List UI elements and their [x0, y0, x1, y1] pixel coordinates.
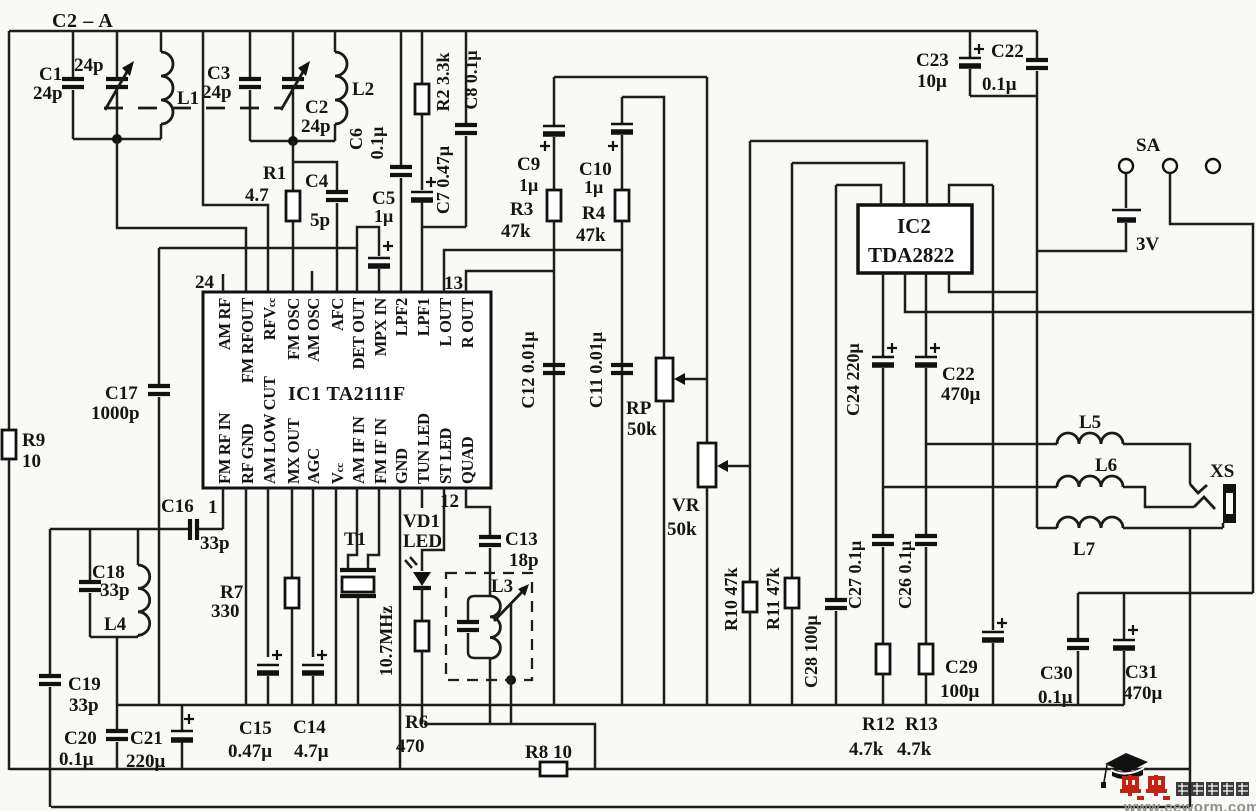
- svg-text:AM LOW CUT: AM LOW CUT: [260, 376, 279, 484]
- wire GND pin 9 to bottom bus: [399, 488, 402, 769]
- capacitor C13: [466, 488, 539, 595]
- svg-text:R7: R7: [220, 582, 244, 603]
- svg-text:R1: R1: [263, 163, 286, 184]
- wire volume net vertical: [749, 141, 752, 582]
- capacitor C12: [518, 331, 565, 408]
- wire C10 top hook: [622, 97, 664, 358]
- svg-text:C14: C14: [293, 717, 326, 738]
- capacitor C16: [50, 496, 230, 554]
- capacitor C4: [293, 162, 348, 292]
- svg-text:L4: L4: [104, 614, 127, 635]
- svg-text:33p: 33p: [200, 533, 230, 554]
- capacitor C29: [940, 185, 1007, 705]
- svg-text:0.1μ: 0.1μ: [1038, 687, 1073, 708]
- node tank1 junction: [112, 134, 122, 144]
- svg-text:0.1μ: 0.1μ: [367, 127, 387, 160]
- svg-text:10μ: 10μ: [917, 71, 947, 92]
- wire jack contact 1: [1190, 484, 1207, 493]
- wire decoupling box bottom: [970, 95, 1037, 98]
- svg-text:R2 3.3k: R2 3.3k: [433, 52, 453, 111]
- wire IC2 input bracket 2: [792, 163, 904, 205]
- svg-text:R9: R9: [22, 430, 45, 451]
- svg-text:4.7k: 4.7k: [849, 739, 884, 760]
- svg-text:TUN LED: TUN LED: [414, 413, 433, 484]
- svg-text:33p: 33p: [69, 695, 99, 716]
- svg-text:www.eeworm.com: www.eeworm.com: [1123, 799, 1256, 811]
- svg-text:C8 0.1μ: C8 0.1μ: [461, 50, 481, 109]
- capacitor C15: [228, 488, 282, 762]
- svg-text:4.7: 4.7: [245, 185, 269, 206]
- wire switch pole 2 feed: [1170, 173, 1253, 593]
- svg-text:C11 0.01μ: C11 0.01μ: [586, 332, 606, 408]
- inductor L3 tuned tank: [457, 576, 529, 658]
- wire bottom ground bus: [9, 768, 1190, 771]
- svg-text:24p: 24p: [301, 116, 331, 137]
- potentiometer RP: [626, 358, 707, 705]
- svg-text:LED: LED: [403, 531, 442, 552]
- wire detector out run: [159, 248, 357, 292]
- svg-text:R4: R4: [582, 203, 606, 224]
- wire IC2 top pin 4 bracket: [949, 185, 993, 205]
- svg-text:4.7k: 4.7k: [897, 739, 932, 760]
- watermark site name glyph blocks: [1176, 782, 1249, 796]
- resistor R11: [763, 567, 799, 705]
- svg-text:1μ: 1μ: [374, 206, 393, 226]
- resistor R8: [525, 742, 572, 776]
- wire LPF1 box bottom: [422, 227, 466, 292]
- svg-text:C19: C19: [68, 674, 101, 695]
- wire top supply rail: [9, 30, 1037, 33]
- pin 1 stub: [222, 488, 225, 529]
- capacitor C10: [579, 97, 633, 197]
- svg-text:1000p: 1000p: [91, 403, 140, 424]
- svg-text:0.1μ: 0.1μ: [982, 74, 1017, 95]
- svg-text:C3: C3: [207, 63, 230, 84]
- capacitor C26: [895, 444, 937, 644]
- resistor R9: [2, 430, 45, 472]
- svg-text:C2 – A: C2 – A: [52, 10, 113, 32]
- svg-text:R11 47k: R11 47k: [763, 567, 783, 630]
- svg-text:C16: C16: [161, 496, 194, 517]
- watermark graduation cap: [1101, 753, 1148, 788]
- svg-text:GND: GND: [392, 448, 411, 484]
- op-amp U2 IC2 TDA2822 body: [858, 205, 972, 273]
- capacitor C21: [126, 705, 194, 772]
- svg-text:4.7μ: 4.7μ: [294, 741, 329, 762]
- svg-text:C28 100μ: C28 100μ: [801, 615, 821, 688]
- svg-text:C7 0.47μ: C7 0.47μ: [433, 146, 453, 214]
- svg-text:R10 47k: R10 47k: [721, 567, 741, 631]
- wire jack contact 2: [1194, 497, 1215, 509]
- wire left border lower: [8, 459, 11, 770]
- wire L3 dashed box: [446, 573, 532, 680]
- svg-text:RF GND: RF GND: [238, 423, 257, 484]
- svg-text:MX OUT: MX OUT: [284, 418, 303, 484]
- svg-text:R8 10: R8 10: [525, 742, 572, 763]
- svg-text:L OUT: L OUT: [436, 298, 455, 347]
- svg-text:C26 0.1μ: C26 0.1μ: [895, 541, 915, 609]
- svg-text:0.47μ: 0.47μ: [228, 741, 272, 762]
- svg-text:FM OSC: FM OSC: [284, 298, 303, 360]
- svg-text:24p: 24p: [202, 82, 232, 103]
- svg-text:MPX IN: MPX IN: [371, 298, 390, 357]
- pin 20 stub: [311, 271, 314, 292]
- switch SA contact 3: [1206, 159, 1220, 173]
- capacitor C22a 0.1μ: [982, 31, 1048, 528]
- node junction L3 return: [506, 675, 516, 685]
- capacitor C8: [455, 31, 481, 227]
- svg-text:C9: C9: [517, 154, 540, 175]
- svg-text:C29: C29: [945, 657, 978, 678]
- svg-text:R6: R6: [405, 712, 428, 733]
- svg-text:T1: T1: [344, 529, 366, 550]
- capacitor C20: [59, 705, 128, 770]
- wire stereo feed vertical: [706, 77, 709, 443]
- wire tank1 to IC1 pin 23: [117, 139, 246, 292]
- op-amp U1 IC1 TA2111F body: [203, 292, 491, 488]
- svg-text:18p: 18p: [509, 550, 539, 571]
- wire pin 13 R OUT bracket: [466, 271, 554, 292]
- wire speaker top line: [1078, 592, 1253, 595]
- svg-text:VR: VR: [672, 495, 700, 516]
- svg-text:C27 0.1μ: C27 0.1μ: [845, 541, 865, 609]
- svg-text:FM RF IN: FM RF IN: [215, 412, 234, 484]
- svg-text:IC1 TA2111F: IC1 TA2111F: [288, 383, 406, 405]
- connector XS jack: [1210, 461, 1236, 528]
- svg-text:47k: 47k: [501, 221, 531, 242]
- svg-text:100μ: 100μ: [940, 681, 980, 702]
- wire tank1 bottom: [73, 138, 161, 141]
- inductor L7: [1037, 517, 1223, 560]
- inductor L6: [883, 455, 1194, 507]
- svg-text:C1: C1: [39, 64, 62, 85]
- wire L4 tank bottom tap: [90, 637, 138, 705]
- wire L3 slug return: [510, 604, 513, 724]
- svg-text:AM OSC: AM OSC: [304, 298, 323, 362]
- wire jack sleeve return: [1189, 528, 1192, 807]
- resistor R13: [897, 644, 938, 760]
- svg-text:R12: R12: [862, 714, 895, 735]
- node tank2 junction: [288, 136, 298, 146]
- svg-text:0.1μ: 0.1μ: [59, 749, 94, 770]
- svg-text:10: 10: [22, 451, 41, 472]
- capacitor C9: [517, 77, 565, 195]
- svg-text:L1: L1: [177, 88, 199, 109]
- svg-text:C20: C20: [64, 728, 97, 749]
- svg-text:10.7MHz: 10.7MHz: [376, 606, 396, 676]
- svg-text:C15: C15: [239, 718, 272, 739]
- svg-text:ST LED: ST LED: [436, 427, 455, 484]
- svg-text:C23: C23: [916, 50, 949, 71]
- capacitor C11: [586, 332, 633, 408]
- svg-text:C21: C21: [130, 728, 163, 749]
- resistor R10: [721, 567, 757, 705]
- capacitor C19: [39, 529, 101, 807]
- svg-text:24: 24: [195, 272, 215, 293]
- svg-text:IC2: IC2: [897, 214, 931, 238]
- svg-text:C4: C4: [305, 171, 329, 192]
- capacitor C27: [845, 487, 894, 644]
- capacitor C23: [916, 31, 984, 96]
- inductor L2: [335, 31, 374, 141]
- capacitor C17: [91, 248, 170, 705]
- svg-text:AGC: AGC: [304, 448, 323, 484]
- wire quad tank bottom: [489, 658, 492, 724]
- resistor R12: [849, 644, 895, 760]
- capacitor C14: [293, 488, 329, 762]
- battery 3V: [1037, 173, 1160, 255]
- svg-text:33p: 33p: [100, 580, 130, 601]
- svg-text:1: 1: [208, 497, 218, 518]
- svg-text:L2: L2: [352, 79, 374, 100]
- resistor R4: [576, 190, 629, 705]
- wire lowest return line: [51, 806, 1190, 809]
- inductor L1: [161, 31, 199, 139]
- svg-text:TDA2822: TDA2822: [868, 243, 954, 267]
- svg-text:C22: C22: [991, 41, 1024, 62]
- svg-text:R3: R3: [510, 199, 533, 220]
- wire Vcc pin 6 to bus: [335, 488, 338, 705]
- svg-text:C17: C17: [105, 383, 138, 404]
- resistor R3: [501, 190, 561, 705]
- svg-text:FM IF IN: FM IF IN: [371, 418, 390, 484]
- svg-text:AFC: AFC: [328, 298, 347, 331]
- svg-text:47k: 47k: [576, 225, 606, 246]
- wire tank2 bottom: [250, 140, 335, 143]
- svg-text:1μ: 1μ: [584, 177, 603, 197]
- capacitor C24: [843, 273, 897, 487]
- svg-text:XS: XS: [1210, 461, 1234, 482]
- svg-text:1μ: 1μ: [519, 175, 538, 195]
- capacitor C5: [357, 188, 395, 292]
- diode VD1 LED: [403, 488, 442, 621]
- svg-text:C22: C22: [942, 364, 975, 385]
- capacitor C30: [1038, 593, 1089, 708]
- capacitor C31: [1113, 593, 1163, 705]
- capacitor C28: [801, 185, 847, 705]
- svg-text:C13: C13: [505, 529, 538, 550]
- svg-text:AM RF: AM RF: [215, 298, 234, 350]
- capacitor C18: [79, 529, 130, 637]
- svg-text:24p: 24p: [33, 83, 63, 104]
- svg-text:C2: C2: [305, 97, 328, 118]
- svg-text:LPF1: LPF1: [414, 298, 433, 336]
- wire gang dashed link: [104, 107, 282, 110]
- inductor L4: [104, 529, 150, 637]
- resistor R2: [415, 31, 453, 190]
- pin 2 stub: [245, 488, 248, 705]
- svg-text:470: 470: [396, 736, 425, 757]
- wire pin 14 L OUT bracket: [444, 250, 622, 292]
- svg-text:L7: L7: [1073, 539, 1096, 560]
- wire middle bus: [117, 704, 1124, 707]
- capacitor C2-A trimmer: [74, 31, 134, 139]
- wire C9 top hook: [554, 76, 707, 79]
- svg-text:C30: C30: [1040, 663, 1073, 684]
- capacitor C22b 470μ: [915, 273, 981, 444]
- resistor R7: [211, 488, 299, 705]
- switch SA contact 2: [1163, 159, 1177, 173]
- svg-text:470μ: 470μ: [1123, 683, 1163, 704]
- svg-text:SA: SA: [1136, 135, 1161, 156]
- crystal T1 10.7MHz: [340, 488, 396, 705]
- svg-text:QUAD: QUAD: [458, 436, 477, 484]
- svg-text:C12 0.01μ: C12 0.01μ: [518, 331, 538, 408]
- svg-text:3V: 3V: [1136, 234, 1160, 255]
- wire RFVcc feed to pin 22: [203, 31, 268, 292]
- capacitor C1: [33, 31, 84, 139]
- svg-text:470μ: 470μ: [941, 384, 981, 405]
- resistor R6: [396, 621, 429, 757]
- wire IC2 input bracket 1: [750, 141, 927, 205]
- svg-text:L6: L6: [1095, 455, 1117, 476]
- watermark red chongchong glyphs: [1120, 775, 1170, 798]
- svg-text:12: 12: [440, 491, 459, 512]
- capacitor C7: [411, 146, 453, 227]
- wire IC2 out right channel: [905, 273, 1253, 312]
- svg-text:50k: 50k: [627, 419, 657, 440]
- wire IC2 input bracket 3: [836, 185, 881, 205]
- switch SA contact 1: [1119, 159, 1133, 173]
- wire IC2 out left channel: [949, 273, 1036, 292]
- capacitor C2-B trimmer: [281, 31, 331, 141]
- svg-text:13: 13: [444, 273, 463, 294]
- svg-text:R13: R13: [905, 714, 938, 735]
- svg-text:C6: C6: [346, 128, 366, 150]
- svg-text:L5: L5: [1079, 412, 1101, 433]
- svg-text:R OUT: R OUT: [458, 298, 477, 349]
- svg-text:24p: 24p: [74, 55, 104, 76]
- svg-text:AM IF IN: AM IF IN: [349, 416, 368, 484]
- svg-text:LPF2: LPF2: [392, 298, 411, 336]
- svg-text:DET OUT: DET OUT: [349, 298, 368, 370]
- capacitor C6: [346, 31, 412, 292]
- resistor R1: [245, 141, 300, 292]
- svg-text:330: 330: [211, 601, 240, 622]
- capacitor C3: [202, 31, 261, 141]
- wire R6 return run: [424, 724, 595, 769]
- svg-text:C24 220μ: C24 220μ: [843, 343, 863, 416]
- svg-text:FM RFOUT: FM RFOUT: [238, 298, 257, 383]
- svg-text:L3: L3: [491, 576, 513, 597]
- wire left border upper: [8, 31, 11, 430]
- svg-text:VD1: VD1: [403, 511, 440, 532]
- potentiometer VR: [667, 443, 750, 705]
- pin 24 stub: [222, 274, 225, 292]
- svg-text:50k: 50k: [667, 519, 697, 540]
- wire input2 vertical: [791, 163, 794, 578]
- pin 11 stub: [422, 488, 444, 571]
- svg-text:RP: RP: [626, 398, 652, 419]
- svg-text:5p: 5p: [310, 210, 330, 231]
- svg-text:C31: C31: [1125, 662, 1158, 683]
- inductor L5: [926, 412, 1190, 484]
- svg-text:220μ: 220μ: [126, 751, 166, 772]
